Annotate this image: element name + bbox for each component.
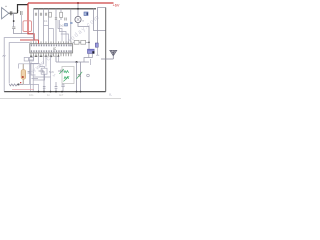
wire fan b [60,20,67,41]
resistor R2 [60,9,62,20]
op-amp IC body [30,44,73,53]
wire red to IC pin [20,40,39,44]
node junction [13,20,15,22]
page rule [0,98,121,100]
svg-text:10n: 10n [29,93,34,97]
capacitor C7 [65,18,66,21]
resistor R1 [49,12,52,17]
wire link l2 [49,29,54,42]
speaker MIC [2,8,9,19]
wire osc vert 2 [80,62,82,92]
capacitor C2 [12,27,15,29]
pin 2 red stub [38,41,40,43]
resistor R6 [24,57,28,61]
resistor R5 zigzag [9,84,18,86]
crystal X1 [84,12,88,16]
pin stubs top [31,41,71,43]
top bus dark [34,8,97,10]
antenna feed [105,8,107,92]
capacitor C1 [21,11,22,15]
svg-text:+T: +T [53,75,56,78]
pin numbers bottom [31,50,72,52]
wire mixer leads [31,62,45,80]
svg-text:4n7: 4n7 [59,93,64,97]
resistor R7 [29,57,33,61]
capacitor C13 [61,84,64,92]
wire C2 to bus [14,29,34,34]
wire fan c [61,34,69,41]
wire bottom h1 [33,77,50,92]
capacitor C11 [43,87,46,92]
wire right riser [94,9,106,31]
transistor Q1 [77,3,79,16]
inductor L2 [64,77,69,79]
wire audio riser dark [18,5,29,13]
capacitor C12 [55,82,58,92]
ground bus under IC [31,55,59,57]
label blue x1 [65,24,68,27]
wire mic branch down [13,13,15,27]
tank box [98,8,106,44]
wire drop 5 [55,9,57,42]
wire mic to riser [9,12,18,14]
capacitor C10 trimmer [58,70,64,73]
capacitor C9 [39,70,45,92]
capacitor C8 [28,72,31,74]
resistor R4 [81,40,86,44]
squiggle label [3,55,6,56]
capacitor C5 [45,13,46,16]
transistor Q2 [22,64,24,85]
capacitor C4 [40,13,41,16]
wire Q2 top [19,64,40,92]
svg-text:2n2: 2n2 [60,25,65,28]
wire drop 1 [33,9,35,42]
wire red supply down [28,3,34,40]
wire osc vert 1 [76,62,78,92]
svg-text:5p6: 5p6 [49,70,54,74]
wire pink fade [12,89,34,91]
wire left rail 2 [9,43,30,84]
svg-text:+6V: +6V [113,4,120,8]
mixer box [41,68,47,74]
wire drop 3 [43,9,45,42]
modulator M1 blue [88,49,95,53]
wire left rail 1 [4,38,33,92]
coil box [62,67,74,84]
node circle [87,74,90,77]
antenna [110,50,117,55]
+6V rail red [28,2,114,4]
mic terminal bars [10,11,12,15]
wire drop 2 [38,9,40,40]
component blue x3 [95,43,98,47]
wire stub b [96,47,99,55]
wire Q1 collector route [78,23,89,50]
wire bottom h2 [23,84,38,91]
wire fan a [58,20,62,41]
ground rail [4,91,106,93]
trimmer VC1 [78,75,81,76]
wire R5 to Q2 [18,83,23,85]
svg-text:o,: o, [109,93,112,97]
pin stubs bottom [31,53,71,56]
wire mid bus [56,56,89,62]
wire c10 down [61,67,63,92]
wire stair 2 [30,56,38,91]
wire drop 4 [48,9,50,42]
capacitor C3 [35,13,36,16]
highlight box red [23,21,32,32]
inductor L1 [64,71,69,73]
wire M1 down [84,53,92,62]
wire stub a [90,59,92,65]
pin numbers top [31,44,72,46]
wire stair 4 [50,56,52,77]
label blue x2 [70,22,73,24]
wire C1 down [20,15,22,34]
wire drop 6 [70,9,72,42]
wire link l1 [44,25,49,27]
capacitor C6 [55,18,57,19]
wire stair 1 [29,56,33,84]
wire stair 3 [44,56,59,66]
resistor R3 [73,41,89,43]
